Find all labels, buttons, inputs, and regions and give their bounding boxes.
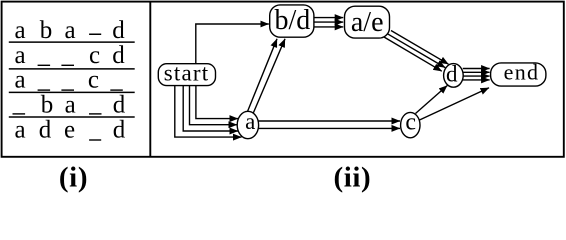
svg-text:a: a <box>14 42 25 69</box>
svg-text:d: d <box>113 117 126 144</box>
edge a/e->d #2 <box>388 34 446 68</box>
svg-text:a: a <box>14 67 25 94</box>
edge start->a #2 <box>190 86 238 125</box>
svg-text:(ii): (ii) <box>333 161 371 193</box>
edge start->a #4 <box>175 86 242 138</box>
node b/d <box>270 5 314 37</box>
edge start->a #1 <box>196 86 238 119</box>
edge start->a #3 <box>183 86 238 132</box>
edge a->b/d #2 <box>253 39 285 113</box>
svg-text:e: e <box>64 117 75 144</box>
row 2 underscore 2 <box>61 65 74 66</box>
rule under row 2 <box>9 68 135 70</box>
rule under row 1 <box>9 41 135 43</box>
row 3 underscore 3 <box>110 89 123 90</box>
svg-text:a/e: a/e <box>351 7 384 38</box>
svg-text:d: d <box>39 117 52 144</box>
edge start->b/d <box>196 24 269 64</box>
svg-text:(i): (i) <box>59 161 88 193</box>
edge d->end #4 <box>463 79 490 81</box>
edge a->b/d #1 <box>247 39 277 112</box>
node a <box>237 109 258 139</box>
edge c->d <box>416 86 448 114</box>
node end <box>491 60 546 87</box>
edge b/d->a/e #2 <box>314 21 343 23</box>
edge c->end <box>420 88 490 120</box>
edge d->end #3 <box>463 75 490 77</box>
edge d->end #2 <box>463 71 490 73</box>
node start <box>158 61 215 86</box>
alignment row 2: a _ _ c d <box>14 42 125 69</box>
edge a->c #1 <box>258 120 400 122</box>
alignment row 3: a _ _ c _ <box>14 67 99 94</box>
svg-text:d: d <box>112 17 125 44</box>
svg-text:a: a <box>14 117 25 144</box>
alignment row 4: _ b a _ d <box>41 91 126 118</box>
svg-text:b: b <box>40 17 53 44</box>
row 3 underscore 1 <box>38 89 51 90</box>
alignment row 1: a b a - d <box>14 17 125 44</box>
svg-text:d: d <box>112 42 125 69</box>
edge b/d->a/e #1 <box>314 17 343 19</box>
edge a/e->d #3 <box>384 37 442 71</box>
svg-text:start: start <box>164 61 210 86</box>
edge a->c #2 <box>258 127 400 129</box>
row 4 underscore 2 <box>89 113 102 114</box>
alignment row 5: a d e _ d <box>14 117 125 144</box>
outer frame <box>2 2 564 157</box>
svg-text:d: d <box>446 61 458 86</box>
svg-text:a: a <box>245 109 255 134</box>
svg-text:b: b <box>41 91 54 118</box>
edge b/d->a/e #3 <box>314 26 343 28</box>
node d <box>444 61 464 87</box>
row 5 underscore <box>89 139 101 140</box>
panel divider <box>149 2 151 157</box>
svg-text:c: c <box>405 110 416 136</box>
svg-text:b/d: b/d <box>275 5 311 36</box>
edge a/e->d #1 <box>391 31 449 65</box>
svg-text:a: a <box>64 17 75 44</box>
svg-text:c: c <box>88 67 99 94</box>
rule under row 3 <box>9 91 135 93</box>
edge d->end #1 <box>463 68 490 70</box>
row 2 underscore 1 <box>38 65 51 66</box>
svg-text:a: a <box>65 91 76 118</box>
row 3 underscore 2 <box>61 89 74 90</box>
svg-text:end: end <box>504 60 540 85</box>
rule under row 4 <box>9 116 135 118</box>
row 1 gap dash <box>89 34 101 36</box>
node c <box>401 110 420 138</box>
svg-text:d: d <box>113 91 126 118</box>
row 4 underscore 1 <box>13 113 26 114</box>
svg-text:c: c <box>89 42 100 69</box>
svg-text:a: a <box>14 17 25 44</box>
node a/e <box>345 6 390 38</box>
